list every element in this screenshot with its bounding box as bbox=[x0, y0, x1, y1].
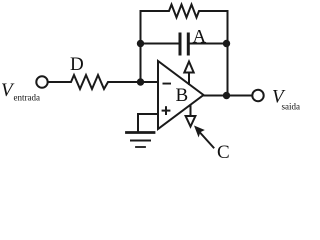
svg-text:saida: saida bbox=[282, 102, 301, 112]
svg-text:D: D bbox=[70, 54, 84, 75]
svg-text:A: A bbox=[193, 27, 207, 48]
svg-text:C: C bbox=[217, 142, 230, 162]
svg-text:B: B bbox=[176, 85, 189, 106]
svg-text:entrada: entrada bbox=[14, 93, 40, 103]
